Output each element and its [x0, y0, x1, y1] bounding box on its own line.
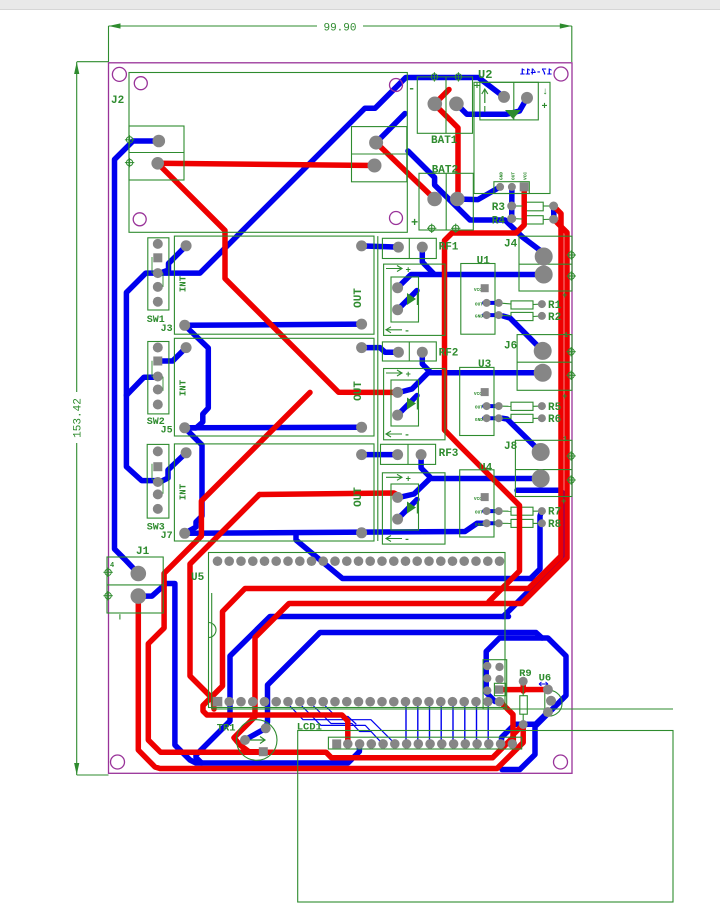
svg-text:VCC: VCC [523, 172, 529, 180]
wire blue J3 to J5 [185, 325, 209, 428]
pads J4 [535, 248, 553, 266]
U2 pin row [494, 182, 529, 194]
thin blue LCD vertical wires [405, 705, 407, 740]
svg-text:RF3: RF3 [439, 448, 459, 460]
resistor R1 leads [499, 303, 511, 304]
svg-text:1: 1 [564, 332, 568, 340]
wire blue TR1 left to top [243, 728, 266, 741]
svg-text:U5: U5 [191, 572, 205, 584]
svg-text:GND: GND [475, 522, 483, 528]
wire blue R3.2 to R4.2 [551, 206, 557, 219]
wire blue RF1 coil 2 diag [398, 291, 417, 310]
wire blue J6.1 to R2 [503, 316, 543, 351]
svg-text:+: + [411, 216, 418, 230]
svg-text:+: + [542, 102, 548, 113]
wire blue U5 row17 to TR1 top [266, 633, 542, 729]
svg-text:OUT: OUT [510, 172, 516, 180]
switch SW1 [148, 238, 169, 310]
svg-text:TR1: TR1 [217, 723, 236, 735]
LCD connector row [328, 737, 521, 749]
connector U2 plug [480, 82, 538, 120]
pads J1 [131, 566, 147, 582]
connector J2 module right conn [352, 127, 407, 182]
pads RF3 [392, 449, 403, 460]
svg-text:BAT1: BAT1 [431, 135, 458, 147]
wire blue J8.1 to R6 [502, 418, 541, 452]
wire blue SW2.3 tap [126, 377, 157, 395]
thin blue LCD fan wires [288, 704, 392, 741]
svg-text:J8: J8 [504, 441, 518, 453]
svg-text:R2: R2 [548, 312, 561, 324]
wire red RF2 coil to bottom left wrap to LCD pad2 [148, 392, 513, 757]
wire blue module J5 to RF2.1 [362, 348, 399, 353]
trimmer TR1 [236, 720, 277, 761]
svg-text:OUT: OUT [475, 510, 483, 516]
wire blue J8.2 to RF3 coil [399, 479, 541, 498]
wire blue J3 pad to module pad [185, 324, 362, 325]
LCD outline [211, 593, 213, 709]
svg-text:R7: R7 [548, 507, 561, 519]
wire red U5 pad riser to LCD pad16 [502, 703, 514, 736]
diode arrow U2 [505, 110, 521, 119]
pads U1 [481, 284, 489, 292]
pads SW2 [153, 343, 163, 353]
pads RF2 [393, 347, 404, 358]
wire blue feed row16 from J8 [503, 496, 566, 616]
svg-text:+: + [562, 392, 567, 402]
relay module J7 [174, 444, 374, 541]
R9 header [483, 660, 507, 709]
wire blue SW1.3 diagonal to U2.1 [158, 78, 504, 274]
wire blue SW chain vertical [126, 273, 157, 481]
pads J2 module right conn [369, 136, 383, 150]
svg-text:R8: R8 [548, 519, 562, 531]
pads J6 [534, 342, 552, 360]
svg-text:GND: GND [475, 417, 483, 423]
svg-text:R4: R4 [492, 216, 506, 228]
relay module J5 [174, 338, 374, 436]
svg-text:17-411: 17-411 [519, 68, 552, 78]
svg-text:GND: GND [475, 314, 483, 320]
svg-text:153.42: 153.42 [73, 398, 85, 438]
wire blue R7 down to U5 row13 [531, 511, 542, 579]
svg-text:OUT: OUT [353, 381, 365, 401]
svg-text:BAT2: BAT2 [432, 165, 458, 177]
wire blue U5 bend top right [296, 535, 533, 579]
svg-text:U1: U1 [477, 256, 491, 268]
pads R5 R6 [538, 402, 546, 410]
wire blue BAT2.2 to U2.GND [457, 187, 500, 200]
switch SW3 [147, 444, 169, 518]
svg-text:OUT: OUT [475, 405, 483, 411]
wire red BAT1.1 to BAT2.2 [435, 104, 458, 199]
svg-text:OUT: OUT [353, 288, 365, 308]
IC U5 [209, 553, 506, 708]
svg-text:99.90: 99.90 [323, 23, 356, 35]
wire red RF3 tail down left [190, 495, 259, 710]
resistor R3 leads [512, 205, 523, 207]
svg-text:+: + [562, 291, 567, 301]
wire blue J5 top pad link [158, 348, 186, 361]
connector J2 module outline [129, 73, 407, 233]
relay RF1 coil box [384, 264, 445, 335]
wire red module pad1 to BAT2.1 [376, 143, 435, 199]
svg-text:-: - [404, 431, 410, 442]
wire blue RF2.2 drop [422, 352, 431, 373]
board outline [109, 63, 573, 774]
wire red J2.2 down to RF2 coil [158, 163, 395, 392]
svg-text:U2: U2 [478, 68, 492, 82]
svg-text:+: + [406, 370, 411, 380]
svg-text:INT: INT [179, 483, 189, 500]
relay RF1 [382, 238, 436, 258]
pads R9 [519, 677, 528, 686]
regulator U2 outline [474, 82, 550, 193]
pads U6 [543, 685, 553, 695]
wire blue RF3.2 drop [421, 455, 430, 477]
svg-text:J5: J5 [161, 426, 173, 437]
pads U5 bottom row [213, 697, 223, 707]
connector J4 [519, 236, 572, 291]
regulator U4 [460, 470, 494, 537]
wire blue module J7 to RF3.1 [362, 452, 398, 458]
svg-text:U3: U3 [478, 359, 492, 371]
wire red R4.2 right rail to U5 row15 [234, 219, 567, 752]
svg-text:RF1: RF1 [439, 241, 459, 253]
relay RF3 coil box [382, 473, 445, 544]
pads LCD row [332, 739, 341, 748]
svg-text:R3: R3 [492, 202, 506, 214]
wire blue J6.2 to RF2 coil [399, 373, 543, 393]
wire blue U2.OUT to R3/R4 [509, 187, 515, 219]
dimension 99.90 horizontal [109, 23, 572, 63]
svg-text:R6: R6 [548, 414, 561, 426]
wire blue J2 module pad1 stub [376, 114, 405, 143]
wire blue U1 U3 U4 pin pairs [484, 301, 500, 305]
wire red R9 header to U6 [499, 687, 548, 693]
connector J6 [517, 335, 572, 391]
svg-text:OUT: OUT [475, 302, 483, 308]
pads relay module J7 [181, 447, 192, 458]
svg-text:J7: J7 [161, 531, 173, 542]
svg-text:INT: INT [179, 379, 189, 396]
relay RF2 [382, 342, 436, 361]
wire blue RF1.2 drop [422, 247, 434, 274]
pads U2 plug [498, 91, 510, 103]
switch SW2 [148, 342, 169, 414]
svg-text:+: + [406, 474, 411, 484]
battery BAT1 [417, 77, 472, 133]
svg-text:INT: INT [179, 275, 189, 292]
pads BAT2 [427, 192, 442, 207]
resistor R9 leads [522, 684, 524, 696]
inner holes [134, 77, 147, 90]
wire red J1.2 outer bottom rail to R9 [138, 596, 523, 768]
pads U2 pin row [496, 183, 504, 191]
resistor R7 leads [499, 510, 511, 512]
wire red RF3 horizontal [259, 493, 397, 495]
connector J1 [107, 557, 163, 613]
svg-text:J2: J2 [111, 95, 124, 107]
wire blue J1.2 bottom rail to LCD pad3 [138, 584, 359, 764]
connector J2 [129, 126, 184, 180]
pads U4 [481, 493, 489, 501]
wire red R9 top [520, 681, 526, 691]
text 17-411 mirrored [519, 68, 552, 78]
pads TR1 [240, 735, 250, 745]
pads relay module J3 [181, 240, 192, 251]
svg-text:+: + [474, 82, 480, 93]
svg-text:GND: GND [499, 172, 505, 180]
svg-text:1: 1 [563, 436, 567, 444]
battery BAT2 [419, 173, 473, 230]
relay module J3 [174, 236, 374, 334]
mounting holes [112, 67, 126, 81]
pads U5 top row [213, 556, 223, 566]
pads SW3 [153, 446, 163, 456]
svg-text:↓: ↓ [542, 87, 548, 98]
wire blue BAT1.2 to U2.2 [456, 98, 527, 114]
dimension 153.42 vertical [73, 62, 109, 775]
pads J8 [532, 443, 550, 461]
svg-text:R5: R5 [548, 402, 562, 414]
wire blue J4.2 to RF1 coil [398, 275, 543, 288]
wire blue module J3 to RF1.1 [362, 246, 399, 247]
wire red J2.2 to module pad2 [158, 163, 375, 165]
svg-text:LCD1: LCD1 [297, 721, 322, 733]
crosshair pads [125, 135, 134, 144]
wire blue J8 bottom [517, 490, 566, 496]
svg-text:+: + [406, 266, 411, 276]
wire blue RF3 coil 2 diag [398, 500, 417, 520]
pads R1 R2 [538, 300, 546, 308]
wire blue J5 to J7 [185, 428, 202, 534]
svg-text:RF2: RF2 [439, 347, 459, 359]
wire blue RF2 coil 2 diag [398, 396, 417, 416]
svg-text:OUT: OUT [353, 487, 365, 507]
pads J2 [153, 135, 166, 148]
wire blue J5 pad to module pad [185, 425, 362, 431]
wire blue BAT2.1 to J4.1 [408, 151, 543, 252]
wire blue J7 pad to module pad [185, 523, 487, 533]
pads relay module J5 [181, 342, 192, 353]
resistor bodies [522, 202, 543, 211]
resistor R5 leads [499, 405, 511, 407]
relay RF2 coil box [384, 369, 445, 440]
wire red R9 bottom to LCD pad16 [513, 725, 523, 744]
resistor R2 leads [499, 314, 511, 317]
wire red BAT1.1 up to U2 outline [435, 90, 449, 104]
wire red U2.VCC down-left to center rail [445, 187, 525, 602]
pads U3 [481, 388, 489, 396]
pads SW1 [153, 239, 163, 249]
wire blue U6 to LCD pad15 [502, 712, 548, 744]
connector J8 [515, 440, 572, 496]
wire blue J2.1 to J1.1 left rail [115, 141, 159, 574]
svg-text:4: 4 [110, 562, 114, 570]
wire blue U6 loop octagon [486, 638, 566, 770]
wire blue J3 top pad link [160, 246, 186, 273]
svg-text:+: + [561, 497, 566, 507]
svg-text:-: - [408, 82, 415, 96]
regulator U1 [461, 264, 495, 335]
svg-text:J4: J4 [504, 239, 518, 251]
resistor R6 leads [499, 417, 511, 419]
svg-text:J1: J1 [136, 546, 150, 558]
pads R9 header [483, 662, 491, 670]
resistor R8 leads [499, 522, 511, 524]
wire blue J7 top pad link [160, 453, 186, 482]
pads RF1 [393, 242, 404, 253]
pads BAT1 [428, 97, 443, 112]
wire blue U5 row16 [196, 617, 509, 764]
pads R3 R4 [507, 202, 516, 211]
svg-text:-: - [404, 327, 410, 338]
wire red R3.2 right rail to U5 row14 [203, 206, 561, 744]
pads R7 R8 [538, 507, 546, 515]
svg-text:R1: R1 [548, 300, 562, 312]
resistor R4 leads [512, 218, 523, 220]
svg-text:-: - [404, 535, 410, 546]
svg-text:J3: J3 [161, 324, 173, 335]
svg-text:J6: J6 [504, 341, 517, 353]
regulator U3 [460, 367, 494, 435]
svg-text:U4: U4 [479, 463, 493, 475]
relay RF3 [381, 444, 436, 464]
